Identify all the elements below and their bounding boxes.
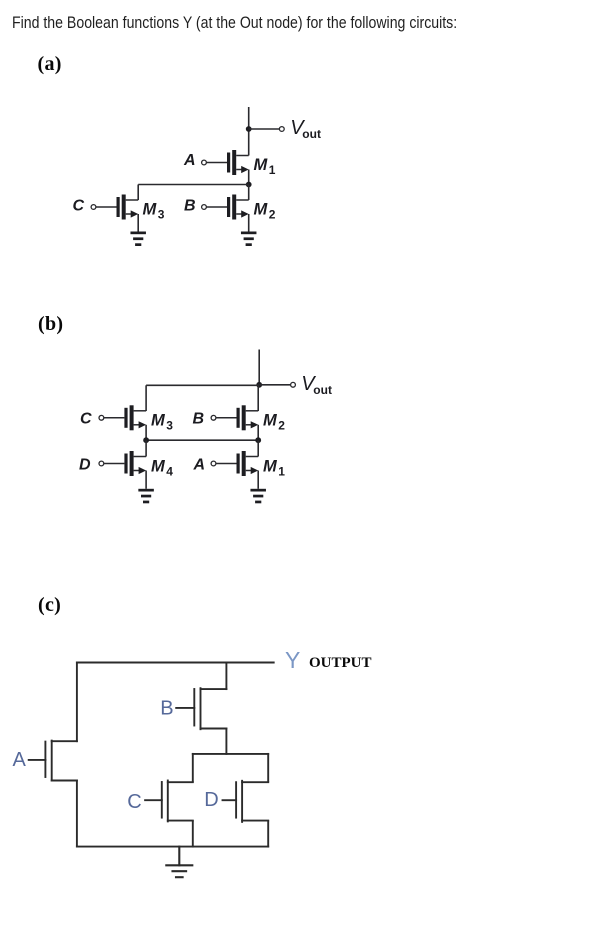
ground at M2 source xyxy=(241,232,257,247)
svg-text:out: out xyxy=(302,127,321,141)
label M2 (b) xyxy=(263,412,285,433)
wire: M3 source down to ground xyxy=(137,214,139,232)
svg-text:M: M xyxy=(254,201,269,219)
label M1 (b) xyxy=(263,458,285,479)
svg-text:D: D xyxy=(204,789,218,811)
wire: M2 source down to ground xyxy=(248,214,250,232)
node: dot at M2/M1 junction xyxy=(255,437,261,443)
svg-text:B: B xyxy=(193,411,205,428)
svg-text:out: out xyxy=(313,383,332,397)
transistor M1 (gate A) xyxy=(202,150,249,175)
wire: mid rail between branches xyxy=(146,439,258,441)
svg-text:A: A xyxy=(13,749,27,771)
label M2 xyxy=(254,201,276,222)
node: Vout junction dot (b) xyxy=(256,382,262,388)
wire: mid horizontal from M3 drain to junction xyxy=(138,184,249,186)
wire: M4 drain vertical xyxy=(145,440,147,456)
ground at M1 source xyxy=(250,489,266,504)
wire: VDD stem down through Vout node to M1 drain xyxy=(248,107,250,156)
terminal: Vout open circle xyxy=(279,127,284,132)
wire: B drain vertical to rail xyxy=(225,663,227,690)
wire: M3 drain up to mid horizontal xyxy=(137,185,139,201)
wire: left vertical from rail to A drain xyxy=(76,663,78,742)
wire: VDD stem down to Vout node xyxy=(258,350,260,385)
ground at M4 source xyxy=(138,489,154,504)
label M1 xyxy=(254,156,276,177)
svg-text:3: 3 xyxy=(158,208,165,222)
wire: M2 drain vertical xyxy=(257,385,259,411)
transistor B (c) xyxy=(176,688,226,729)
transistor D (c) xyxy=(223,781,269,822)
wire: Vout node to output terminal (b) xyxy=(259,384,290,386)
svg-text:M: M xyxy=(263,412,278,430)
svg-text:B: B xyxy=(184,198,196,215)
node: Vout junction dot xyxy=(246,126,252,132)
svg-text:B: B xyxy=(160,698,173,720)
terminal: Vout open circle (b) xyxy=(291,382,296,387)
transistor C (c) xyxy=(145,781,193,822)
wire: M1 source down to mid junction xyxy=(248,170,250,185)
transistor A (c) xyxy=(29,741,77,781)
svg-text:A: A xyxy=(193,457,206,474)
transistor M2 (gate B) xyxy=(202,195,249,220)
svg-text:A: A xyxy=(183,152,196,169)
label Vout (b) xyxy=(301,373,332,397)
svg-text:C: C xyxy=(127,791,141,813)
wire: C/D common top wire xyxy=(193,753,268,755)
svg-text:D: D xyxy=(79,457,91,474)
ground (c) xyxy=(166,847,192,878)
label M4 (b) xyxy=(151,458,173,479)
label M3 (b) xyxy=(151,412,173,433)
wire: top horizontal from M3 drain column to Vout node xyxy=(146,384,259,386)
wire: D drain vertical xyxy=(267,754,269,782)
svg-text:M: M xyxy=(263,458,278,476)
svg-text:M: M xyxy=(143,201,158,219)
svg-text:OUTPUT: OUTPUT xyxy=(309,655,372,671)
svg-text:3: 3 xyxy=(166,419,173,433)
wire: bottom rail xyxy=(77,846,268,848)
node: dot at M3/M4 junction xyxy=(143,437,149,443)
wire: M1 drain vertical xyxy=(257,440,259,456)
svg-text:C: C xyxy=(80,411,92,428)
label Vout (a) xyxy=(290,117,321,141)
svg-text:M: M xyxy=(151,412,166,430)
wire: M3 source down to mid rail xyxy=(145,425,147,440)
wire: output rail to Y xyxy=(77,662,274,664)
svg-text:2: 2 xyxy=(269,208,276,222)
label M3 xyxy=(143,201,165,222)
svg-text:Y: Y xyxy=(285,647,300,673)
svg-text:M: M xyxy=(151,458,166,476)
wire: C drain vertical xyxy=(192,754,194,782)
wire: M4 source to ground xyxy=(145,471,147,489)
transistor M3 (gate C) xyxy=(91,195,138,220)
wire: D source vertical down to bottom rail xyxy=(267,821,269,846)
svg-text:4: 4 xyxy=(166,465,173,479)
transistor M2 (gate B, b) xyxy=(211,405,258,430)
svg-text:1: 1 xyxy=(269,163,276,177)
transistor M1 (gate A, b) xyxy=(211,451,258,476)
node: junction dot between M1 source and M2/M3 drains xyxy=(246,182,252,188)
wire: C source vertical down to bottom rail xyxy=(192,821,194,846)
wire: M3 drain vertical xyxy=(145,385,147,411)
svg-text:1: 1 xyxy=(278,465,285,479)
wire: M2 source down to mid rail xyxy=(257,425,259,440)
transistor M3 (gate C, b) xyxy=(99,405,146,430)
wire: M2 drain up to junction xyxy=(248,185,250,201)
wire: A source vertical down to bottom rail xyxy=(76,781,78,847)
ground at M3 source xyxy=(130,232,146,247)
wire: Vout node to output terminal xyxy=(249,128,280,130)
svg-text:C: C xyxy=(73,198,85,215)
wire: B source vertical down to C/D top wire xyxy=(225,729,227,754)
svg-text:2: 2 xyxy=(278,419,285,433)
transistor M4 (gate D, b) xyxy=(99,451,146,476)
svg-text:M: M xyxy=(254,156,269,174)
wire: M1 source to ground xyxy=(257,471,259,489)
